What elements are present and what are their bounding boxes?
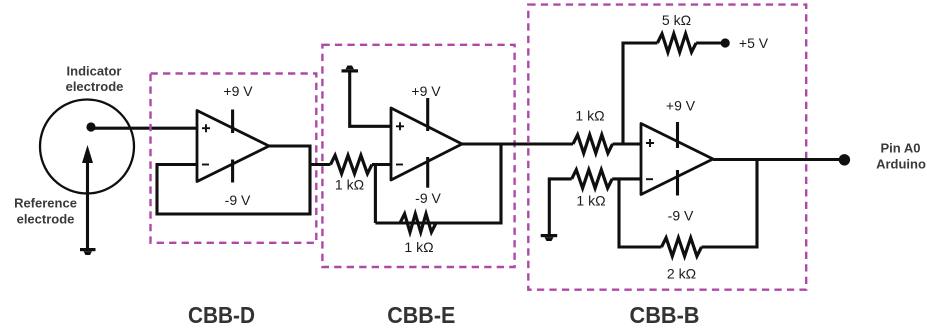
svg-text:+9 V: +9 V — [223, 83, 253, 99]
U2 -9V supply stub — [426, 157, 429, 188]
svg-text:Arduino: Arduino — [876, 157, 926, 172]
resistor R3 5 kOhm (pull-up to +5V) — [657, 34, 696, 52]
wire: CBB-D output to CBB-E input resistor — [310, 163, 331, 166]
svg-text:Reference: Reference — [14, 196, 77, 211]
svg-text:+5 V: +5 V — [739, 35, 769, 51]
label: Reference electrode — [14, 196, 77, 227]
wire: U3 inverting node down to feedback bottom rail — [619, 179, 662, 247]
svg-text:1 kΩ: 1 kΩ — [404, 239, 433, 255]
ground (CBB-B) — [541, 234, 558, 241]
resistor R5 1 kOhm (CBB-B inverting input to ground) — [572, 170, 613, 188]
wire: U3 output to Pin A0 — [713, 158, 839, 161]
wire: U2 output to CBB-B input resistor — [462, 142, 573, 145]
wire: R3 left end down to U3 non-inverting node — [623, 43, 657, 144]
svg-text:1 kΩ: 1 kΩ — [575, 108, 604, 124]
resistor R6 2 kOhm (CBB-B feedback) — [662, 238, 702, 256]
svg-text:Pin A0: Pin A0 — [881, 140, 921, 155]
op-amp U1 (CBB-D buffer) — [197, 111, 269, 182]
svg-text:1 kΩ: 1 kΩ — [335, 177, 364, 193]
CBB-D dashed boundary box — [151, 74, 317, 243]
label: Indicator electrode — [66, 64, 124, 95]
reference electrode lead with up arrow — [82, 145, 93, 249]
wire: flag down to U2 non-inverting input — [350, 72, 391, 126]
op-amp U2 (CBB-E inverting amp) — [391, 108, 462, 180]
wire: U2 feedback loop (output to inverting input) — [375, 144, 501, 223]
op-amp U3 (CBB-B amplifier) — [641, 124, 713, 195]
svg-text:CBB-E: CBB-E — [387, 302, 455, 325]
ground flag (CBB-E non-inverting input reference) — [342, 66, 359, 73]
svg-text:5 kΩ: 5 kΩ — [662, 12, 691, 28]
svg-text:CBB-B: CBB-B — [630, 302, 700, 325]
svg-text:-9 V: -9 V — [415, 190, 441, 206]
wire: R3 to +5V terminal — [696, 41, 721, 44]
U3 -9V supply stub — [676, 170, 679, 196]
wire: R4 to U3 non-inverting input — [613, 142, 642, 145]
U1 +9V supply stub — [231, 110, 234, 134]
wire: R5 to U3 inverting input — [612, 177, 641, 180]
resistor R2 1 kOhm (CBB-E feedback) — [400, 214, 436, 232]
node: +5V terminal dot — [721, 38, 730, 47]
wire: feedback bottom rail up to U3 output — [702, 159, 758, 247]
wire: indicator electrode to U1 non-inverting input — [91, 127, 197, 130]
svg-text:+9 V: +9 V — [411, 83, 441, 99]
svg-text:1 kΩ: 1 kΩ — [576, 193, 605, 209]
svg-text:+9 V: +9 V — [666, 98, 696, 114]
U3 +9V supply stub — [676, 122, 679, 148]
resistor R4 1 kOhm (CBB-B top input) — [573, 135, 613, 153]
resistor R1 1 kOhm (CBB-E input) — [331, 155, 373, 173]
svg-text:2 kΩ: 2 kΩ — [667, 266, 696, 282]
svg-text:-9 V: -9 V — [225, 192, 251, 208]
wire: R5 left end to ground — [549, 179, 571, 235]
svg-text:-9 V: -9 V — [668, 208, 694, 224]
wire: U1 output and feedback loop to inverting input — [157, 146, 310, 214]
wire: R1 to U2 inverting input — [372, 163, 391, 166]
ground (reference electrode) — [80, 248, 96, 255]
CBB-E dashed boundary box — [322, 45, 514, 267]
node: indicator electrode contact dot — [86, 122, 95, 131]
label: Pin A0 Arduino — [876, 140, 926, 171]
svg-text:CBB-D: CBB-D — [188, 302, 255, 325]
svg-text:electrode: electrode — [66, 79, 124, 94]
node: Pin A0 terminal dot — [839, 154, 850, 165]
U2 +9V supply stub — [426, 98, 429, 131]
svg-text:electrode: electrode — [17, 211, 75, 226]
CBB-B dashed boundary box — [528, 5, 806, 290]
indicator electrode body (circle) — [40, 100, 134, 194]
svg-text:Indicator: Indicator — [67, 64, 122, 79]
U1 -9V supply stub — [231, 160, 234, 183]
